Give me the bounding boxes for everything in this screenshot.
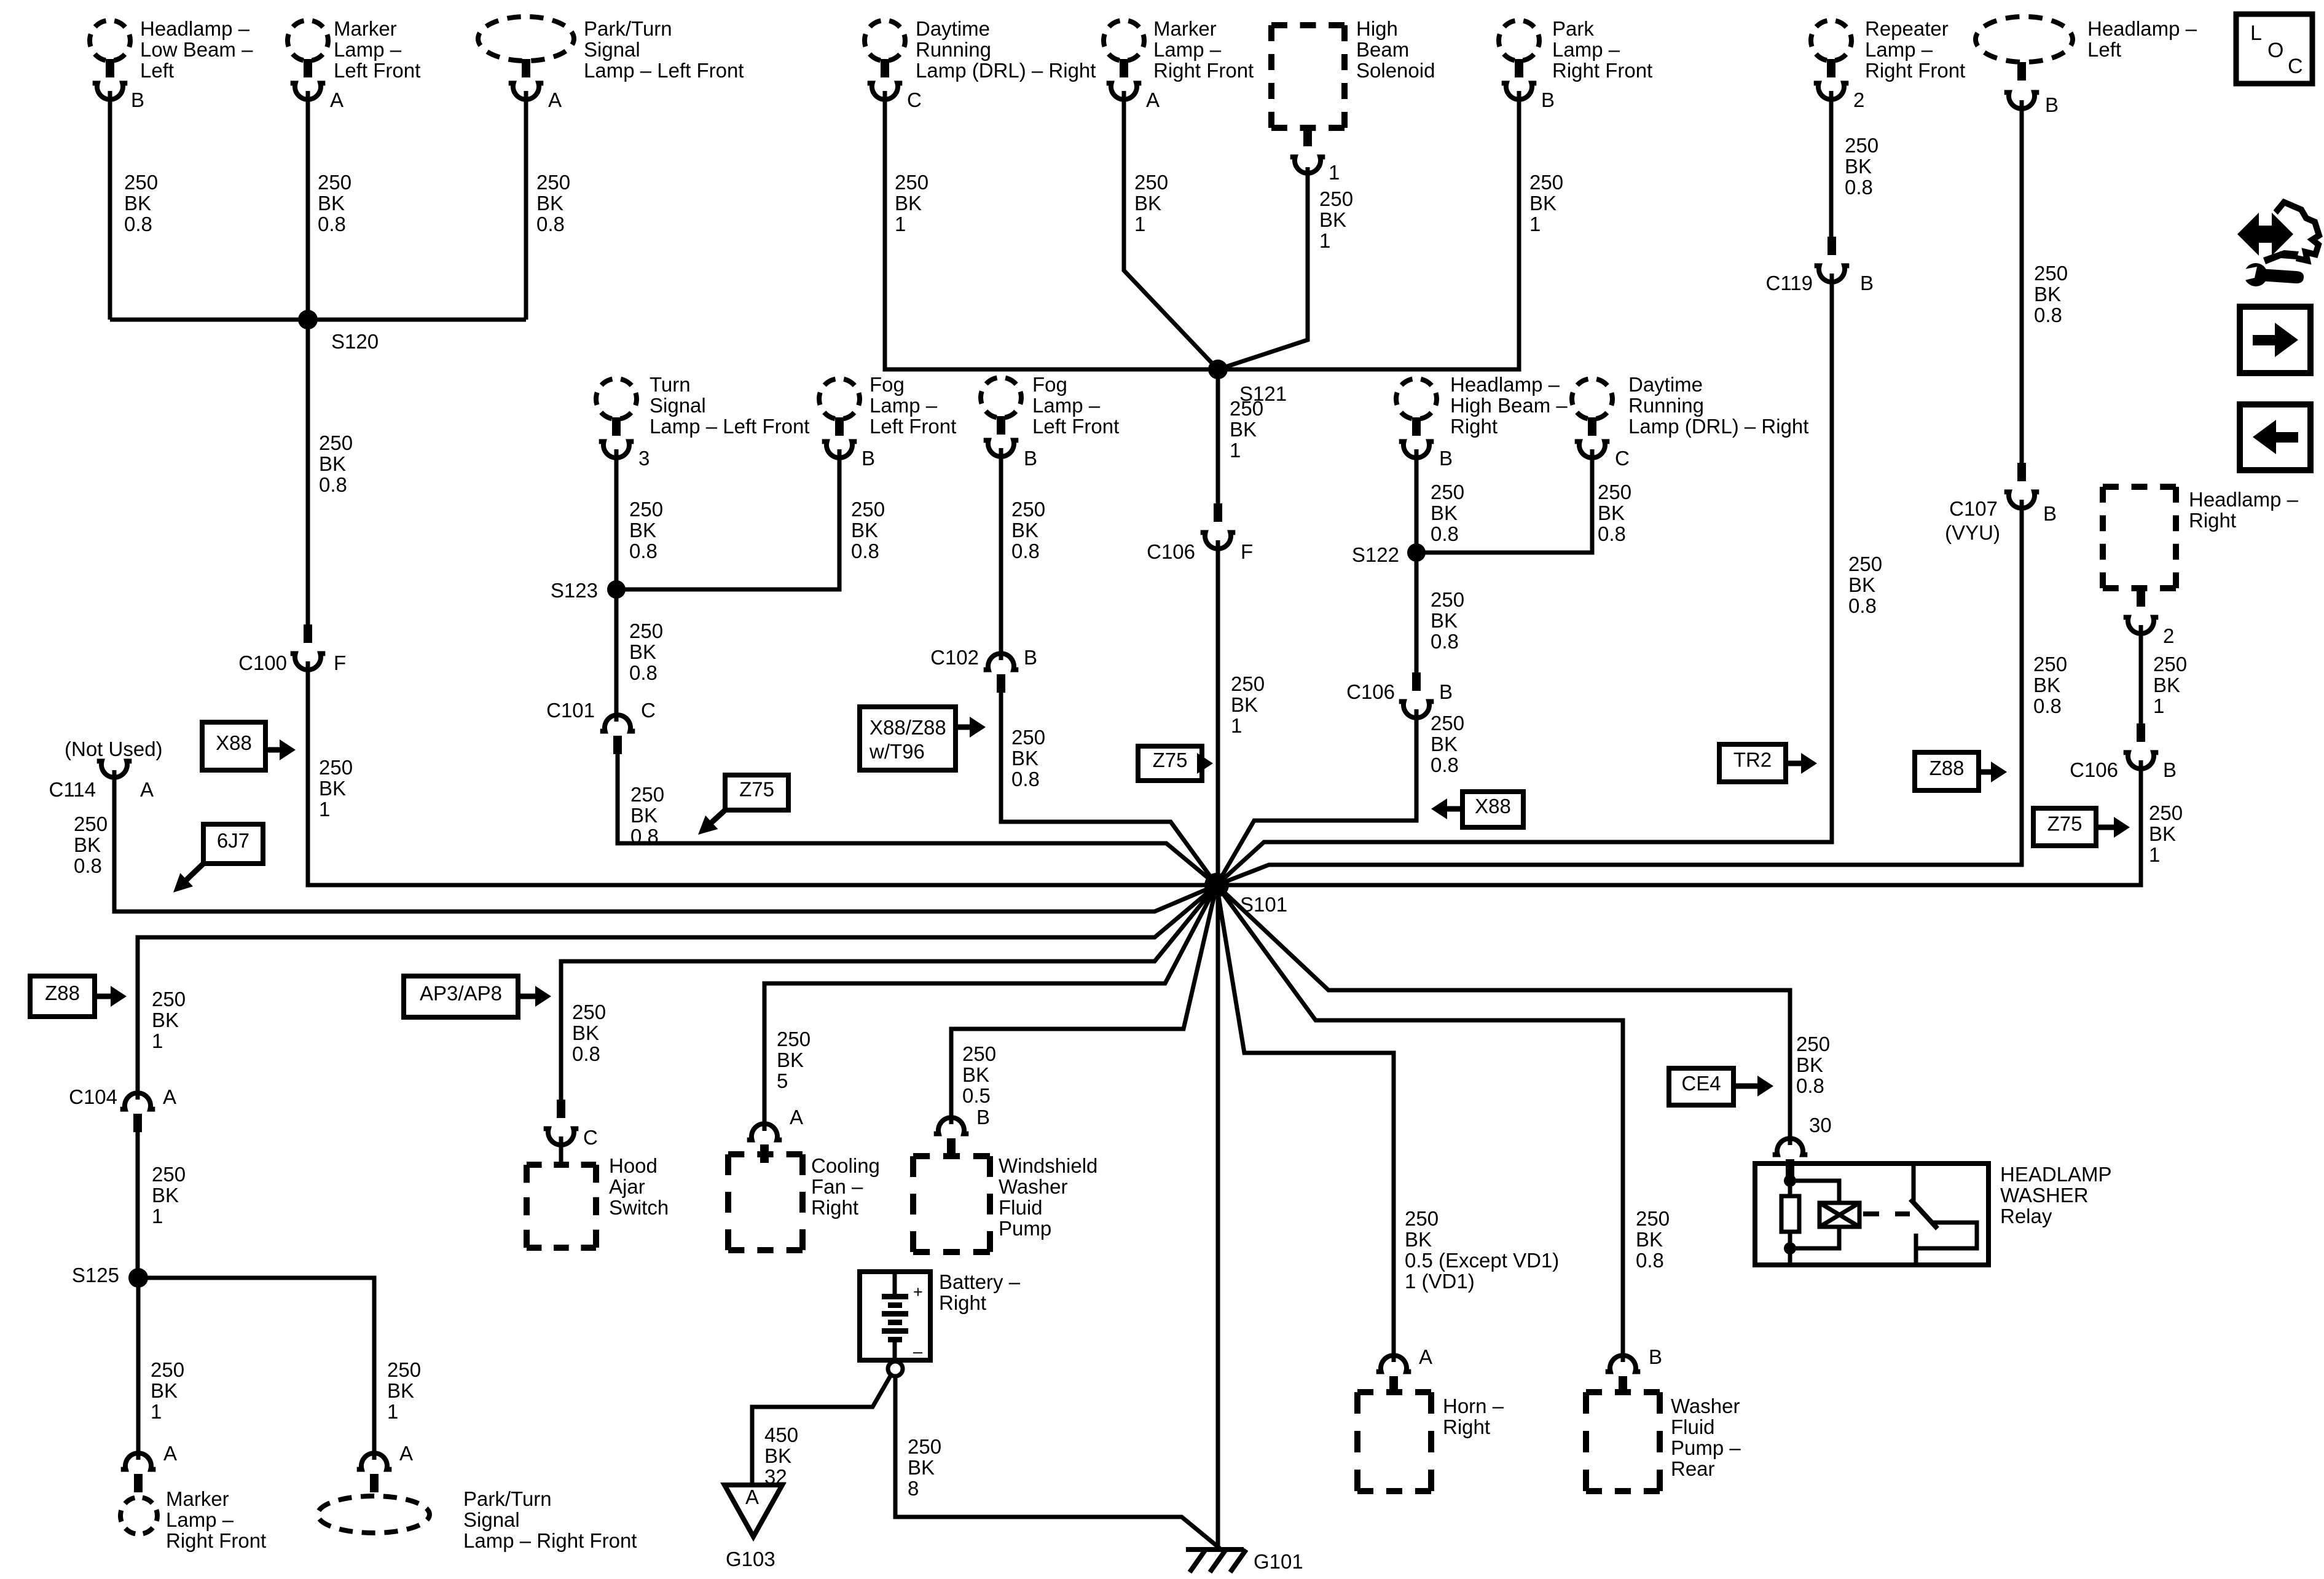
label: Daytime Running Lamp (DRL) - Right (2) — [1628, 373, 1808, 438]
svg-text:C107: C107 — [1949, 497, 1998, 520]
svg-text:A: A — [745, 1486, 759, 1508]
svg-text:250: 250 — [851, 498, 885, 521]
lamp: Turn Signal Lamp - Left Front (connector) — [596, 379, 637, 458]
wire: C106 B right to S101 (main bus right) — [1217, 760, 2141, 885]
wire: headlamp right to C106 — [2139, 625, 2143, 723]
svg-text:250: 250 — [1848, 553, 1882, 575]
svg-text:G101: G101 — [1254, 1550, 1303, 1573]
svg-text:C: C — [907, 89, 922, 111]
svg-text:B: B — [862, 447, 875, 470]
svg-text:C106: C106 — [1147, 540, 1195, 563]
label: Washer Fluid Pump - Rear — [1671, 1395, 1741, 1480]
svg-text:30: 30 — [1809, 1114, 1832, 1136]
arrow: X88/Z88 box to wire — [956, 717, 986, 738]
pin label A (marker right front top) — [1146, 89, 1160, 111]
svg-text:BK: BK — [1796, 1053, 1823, 1076]
wire label 250 BK 0.8 (C119-S101) — [1848, 553, 1882, 617]
arrow: Z75 right to wire — [2096, 817, 2130, 838]
wire: S120 to C100 — [306, 320, 310, 624]
wire label 450 BK 32 — [764, 1423, 798, 1488]
svg-text:BK: BK — [387, 1379, 414, 1402]
pin label B (windshield washer) — [976, 1106, 990, 1128]
svg-text:250: 250 — [319, 756, 353, 779]
svg-text:(Not Used): (Not Used) — [65, 738, 163, 760]
wire: S101 to hood ajar switch — [561, 885, 1217, 1100]
pin label A (park/turn left front) — [548, 89, 562, 111]
connector: horn pin A — [1376, 1355, 1411, 1395]
svg-text:Pump: Pump — [999, 1217, 1051, 1240]
connector: cooling fan pin A — [747, 1124, 782, 1163]
splice S122 — [1352, 543, 1426, 566]
svg-text:Windshield: Windshield — [999, 1154, 1097, 1177]
arrow: Z88 right to wire — [1979, 762, 2007, 782]
component: HEADLAMP WASHER Relay — [1755, 1164, 1988, 1265]
svg-text:BK: BK — [777, 1049, 804, 1071]
wire: S125 to park/turn right front — [138, 1278, 374, 1460]
wire label 250 BK 5 (cooling fan) — [777, 1028, 811, 1092]
svg-text:Battery –: Battery – — [939, 1270, 1021, 1293]
wire: C107 to S101 — [1217, 500, 2022, 885]
svg-text:F: F — [1241, 540, 1253, 563]
label box Z75 (left) — [725, 775, 788, 810]
component: Washer Fluid Pump - Rear (dashed box) — [1586, 1392, 1660, 1491]
pin label B (headlamp left) — [2045, 93, 2059, 116]
wire label 250 BK 0.8 (S123-C101) — [629, 620, 663, 684]
svg-text:Z75: Z75 — [2047, 813, 2083, 835]
svg-text:C101: C101 — [546, 699, 595, 722]
pin label A (park/turn right front) — [399, 1442, 413, 1465]
connector pin 1 (high beam solenoid) — [1290, 128, 1340, 184]
svg-text:AP3/AP8: AP3/AP8 — [420, 982, 502, 1005]
lamp: Daytime Running Lamp (DRL) - Right (connector) — [865, 20, 905, 100]
svg-text:Lamp –: Lamp – — [1153, 38, 1222, 61]
svg-text:B: B — [1649, 1345, 1662, 1368]
label: HEADLAMP WASHER Relay — [2000, 1163, 2112, 1227]
lamp: Headlamp - Left (oval connector) — [1976, 17, 2073, 109]
svg-text:0.8: 0.8 — [1796, 1074, 1824, 1097]
svg-text:Right Front: Right Front — [1153, 59, 1254, 82]
svg-text:Lamp –: Lamp – — [1032, 394, 1101, 417]
svg-text:HEADLAMP: HEADLAMP — [2000, 1163, 2112, 1186]
pin label A (cooling fan) — [790, 1106, 803, 1128]
svg-text:BK: BK — [908, 1456, 935, 1479]
svg-text:250: 250 — [908, 1435, 941, 1458]
icon: left arrow box — [2240, 404, 2310, 470]
svg-text:Fluid: Fluid — [1671, 1416, 1715, 1438]
label: High Beam Solenoid — [1356, 17, 1435, 82]
svg-text:BK: BK — [572, 1022, 599, 1044]
svg-text:BK: BK — [319, 777, 346, 800]
svg-text:Right: Right — [811, 1196, 858, 1219]
svg-text:0.8: 0.8 — [2033, 695, 2062, 717]
arrow: CE4 to wire — [1733, 1076, 1773, 1097]
svg-text:High: High — [1356, 17, 1398, 40]
lamp: Marker Lamp - Left Front (connector) — [288, 20, 328, 100]
component: Battery - Right — [860, 1272, 930, 1361]
svg-text:BK: BK — [630, 804, 658, 827]
wire label 250 BK 0.5 (horn) — [1405, 1207, 1559, 1293]
wire: turn signal to S123 — [614, 449, 619, 589]
svg-text:450: 450 — [764, 1423, 798, 1446]
svg-text:X88: X88 — [216, 731, 252, 754]
label: Daytime Running Lamp (DRL) - Right — [916, 17, 1096, 82]
svg-text:Relay: Relay — [2000, 1205, 2052, 1227]
label: Hood Ajar Switch — [609, 1154, 669, 1219]
connector pin 2 (headlamp right) — [2124, 588, 2175, 647]
svg-text:250: 250 — [962, 1042, 996, 1065]
svg-text:1: 1 — [1529, 213, 1541, 235]
svg-text:BK: BK — [1231, 693, 1258, 716]
label: Fog Lamp - Left Front (1) — [870, 373, 956, 438]
wire label 250 BK 0.8 (park/turn left front) — [536, 171, 570, 235]
label: Fog Lamp - Left Front (2) — [1032, 373, 1119, 438]
svg-text:Lamp (DRL) – Right: Lamp (DRL) – Right — [1628, 415, 1808, 438]
svg-text:A: A — [330, 89, 343, 111]
svg-text:1: 1 — [1230, 439, 1241, 462]
label: Park/Turn Signal Lamp - Right Front — [463, 1487, 637, 1552]
svg-text:B: B — [1024, 646, 1037, 669]
component: Cooling Fan - Right (dashed box) — [728, 1154, 803, 1250]
arrow: Z75 middle to wire — [1197, 753, 1213, 774]
svg-text:0.8: 0.8 — [1431, 754, 1459, 776]
svg-text:Z75: Z75 — [1153, 749, 1188, 771]
svg-text:Z75: Z75 — [739, 778, 774, 801]
component: Headlamp - Right (dashed box) — [2103, 487, 2176, 588]
svg-text:0.8: 0.8 — [1011, 540, 1040, 562]
svg-text:Signal: Signal — [463, 1508, 520, 1531]
label box Z75 (right) — [2033, 808, 2096, 846]
icon: right arrow box — [2240, 307, 2310, 373]
connector C106 pin B (S122 leg) — [1346, 672, 1453, 718]
svg-text:A: A — [163, 1442, 177, 1465]
svg-text:BK: BK — [318, 192, 345, 215]
svg-text:Washer: Washer — [1671, 1395, 1740, 1417]
splice S120 — [298, 310, 379, 353]
wire label 250 BK 0.8 (fog lamp 2) — [1011, 498, 1045, 562]
svg-text:0.8: 0.8 — [1598, 522, 1626, 545]
svg-text:CE4: CE4 — [1681, 1072, 1721, 1095]
svg-text:Fog: Fog — [870, 373, 905, 396]
svg-text:Marker: Marker — [166, 1487, 229, 1510]
svg-text:250: 250 — [318, 171, 351, 194]
wire label 250 BK 0.8 (C102-S101) — [1011, 726, 1045, 790]
icon: service wrench with arrows — [2237, 202, 2319, 286]
connector C104 pin A — [69, 1085, 176, 1132]
wire label 250 BK 1 (S125 left leg) — [151, 1358, 184, 1423]
svg-text:250: 250 — [2033, 653, 2067, 675]
wire label 250 BK 1 (C104-S125) — [152, 1163, 186, 1227]
svg-text:C: C — [641, 699, 656, 722]
pin label A (marker right front) — [163, 1442, 177, 1465]
svg-text:F: F — [334, 652, 346, 674]
label: Park Lamp - Right Front — [1552, 17, 1652, 82]
wire: S101 down to G101 — [1216, 885, 1220, 1549]
svg-text:BK: BK — [2149, 822, 2176, 845]
svg-text:Lamp –: Lamp – — [166, 1508, 234, 1531]
component: High Beam Solenoid (dashed box) — [1271, 25, 1345, 128]
svg-text:BK: BK — [2153, 674, 2180, 696]
svg-text:Lamp – Right Front: Lamp – Right Front — [463, 1529, 637, 1552]
label: Cooling Fan - Right — [811, 1154, 880, 1219]
svg-text:250: 250 — [2153, 653, 2187, 675]
wire: S125 to marker lamp right front — [136, 1278, 141, 1460]
svg-text:Right Front: Right Front — [1552, 59, 1652, 82]
svg-text:0.8: 0.8 — [572, 1042, 600, 1065]
svg-text:B: B — [1439, 680, 1453, 703]
wire: DRL right to S121 — [885, 91, 1218, 369]
wire: park/turn left front to S120 — [524, 91, 528, 320]
pin label A (marker lamp left front) — [330, 89, 343, 111]
svg-text:250: 250 — [1230, 397, 1263, 420]
svg-text:250: 250 — [151, 1358, 184, 1381]
svg-text:BK: BK — [629, 640, 656, 663]
wire label 250 BK 0.8 (low beam left) — [124, 171, 158, 235]
svg-text:1: 1 — [1231, 714, 1242, 737]
svg-text:Lamp –: Lamp – — [1552, 38, 1620, 61]
svg-text:B: B — [976, 1106, 990, 1128]
svg-text:BK: BK — [1431, 502, 1458, 524]
wire label 250 BK 0.5 (windshield washer) — [962, 1042, 996, 1107]
svg-text:BK: BK — [1431, 609, 1458, 632]
svg-text:5: 5 — [777, 1069, 788, 1092]
svg-text:BK: BK — [1636, 1228, 1663, 1251]
wire label 250 BK 1 (Z88-C104) — [152, 988, 186, 1052]
connector + lamp: Park/Turn Signal Lamp - Right Front — [318, 1453, 430, 1533]
svg-text:0.8: 0.8 — [319, 473, 347, 496]
svg-text:0.8: 0.8 — [74, 854, 102, 877]
svg-text:BK: BK — [1598, 502, 1625, 524]
label: Marker Lamp - Left Front — [334, 17, 420, 82]
svg-text:Z88: Z88 — [45, 982, 80, 1004]
connector pin C (hood ajar switch) — [544, 1100, 598, 1165]
wire: DRL right 2 to S122 — [1416, 449, 1592, 553]
svg-text:Right: Right — [1443, 1416, 1490, 1438]
svg-text:Repeater: Repeater — [1865, 17, 1949, 40]
svg-text:BK: BK — [629, 519, 656, 541]
svg-text:Switch: Switch — [609, 1196, 669, 1219]
svg-text:Lamp (DRL) – Right: Lamp (DRL) – Right — [916, 59, 1096, 82]
label box Z75 (middle) — [1138, 746, 1202, 781]
wire label 250 BK 1 (park lamp right front) — [1529, 171, 1563, 235]
wire: C106 B to S101 — [1217, 709, 1416, 885]
svg-text:2: 2 — [2163, 624, 2174, 647]
svg-text:Right: Right — [939, 1291, 986, 1314]
svg-text:250: 250 — [319, 431, 353, 454]
connector C106 pin B (right) — [2070, 723, 2177, 781]
label box 6J7 — [203, 824, 263, 864]
component: Windshield Washer Fluid Pump (dashed box) — [913, 1156, 990, 1252]
wire: repeater lamp to C119 — [1829, 91, 1834, 237]
label box TR2 — [1719, 744, 1786, 782]
wire label 250 BK 0.8 (marker left front) — [318, 171, 351, 235]
wire label 250 BK 0.8 (turn signal) — [629, 498, 663, 562]
ground G103 (triangle A) — [724, 1485, 782, 1570]
svg-text:C106: C106 — [2070, 758, 2118, 781]
lamp: Fog Lamp - Left Front 2 (connector) — [981, 377, 1021, 457]
svg-text:1: 1 — [151, 1400, 162, 1423]
lamp: Park/Turn Signal Lamp - Left Front (oval connector) — [478, 17, 574, 100]
svg-text:Left Front: Left Front — [870, 415, 956, 438]
wire label 250 BK 1 (C106-S101) — [1231, 672, 1265, 737]
arrow: X88 left box to wire — [265, 739, 296, 760]
svg-text:C106: C106 — [1346, 680, 1395, 703]
svg-text:BK: BK — [536, 192, 563, 215]
svg-text:1: 1 — [1134, 213, 1145, 235]
svg-text:0.8: 0.8 — [629, 540, 658, 562]
svg-text:S122: S122 — [1352, 543, 1399, 566]
svg-text:A: A — [163, 1085, 176, 1108]
label: Marker Lamp - Right Front — [166, 1487, 266, 1552]
svg-text:BK: BK — [851, 519, 878, 541]
wire: S122 to C106 B — [1415, 553, 1419, 672]
svg-text:BK: BK — [1319, 208, 1346, 231]
wire: headlamp left to C107 — [2020, 100, 2024, 463]
label box X88 (left) — [202, 722, 265, 770]
wire: C102 to S101 — [1001, 691, 1217, 885]
svg-text:S125: S125 — [72, 1264, 119, 1286]
svg-text:BK: BK — [1431, 733, 1458, 755]
arrow: TR2 to wire — [1786, 753, 1817, 774]
label box CE4 — [1669, 1068, 1733, 1105]
arrow: X88 right to wire (left-pointing) — [1431, 798, 1462, 819]
splice S123 — [551, 579, 626, 602]
svg-text:BK: BK — [1529, 192, 1557, 215]
svg-text:0.8: 0.8 — [851, 540, 879, 562]
svg-text:250: 250 — [895, 171, 928, 194]
svg-text:0.8: 0.8 — [1431, 630, 1459, 653]
svg-text:250: 250 — [1636, 1207, 1670, 1230]
svg-text:0.5: 0.5 — [962, 1084, 991, 1107]
svg-text:Ajar: Ajar — [609, 1175, 645, 1198]
svg-text:A: A — [548, 89, 562, 111]
svg-text:Horn –: Horn – — [1443, 1395, 1504, 1417]
svg-text:Park: Park — [1552, 17, 1594, 40]
wire label 250 BK 1 (DRL right) — [895, 171, 928, 235]
svg-text:WASHER: WASHER — [2000, 1184, 2089, 1207]
svg-text:BK: BK — [1134, 192, 1161, 215]
svg-text:0.8: 0.8 — [1011, 768, 1040, 790]
pin label 3 (turn signal) — [638, 447, 650, 470]
wire: S101 to headlamp washer relay — [1217, 885, 1790, 1145]
arrow: AP3/AP8 to wire — [518, 986, 551, 1007]
wire label 250 BK 0.8 (S120-C100) — [319, 431, 353, 496]
wire label 250 BK 0.8 (high beam right) — [1431, 481, 1464, 545]
svg-text:Marker: Marker — [1153, 17, 1217, 40]
svg-text:250: 250 — [1796, 1033, 1830, 1055]
svg-text:1: 1 — [387, 1400, 398, 1423]
wire: high beam right to S122 — [1415, 449, 1419, 553]
svg-text:BK: BK — [2033, 674, 2060, 696]
wire: high beam solenoid to S121 — [1218, 167, 1308, 369]
svg-text:1: 1 — [152, 1205, 163, 1227]
svg-text:Signal: Signal — [584, 38, 640, 61]
svg-text:BK: BK — [2034, 283, 2061, 305]
pin label C (DRL right 2) — [1615, 447, 1630, 470]
lamp: Headlamp - High Beam - Right (connector) — [1396, 379, 1437, 458]
svg-text:BK: BK — [151, 1379, 178, 1402]
pin label C (DRL right) — [907, 89, 922, 111]
wire: S123 to C101 — [614, 589, 619, 722]
label: Horn - Right — [1443, 1395, 1504, 1438]
wire label 250 BK 1 (marker right front top) — [1134, 171, 1168, 235]
svg-text:Pump –: Pump – — [1671, 1436, 1741, 1459]
wire label 250 BK 0.8 (C101-S101) — [630, 783, 664, 848]
svg-text:Lamp –: Lamp – — [334, 38, 402, 61]
svg-text:Park/Turn: Park/Turn — [584, 17, 672, 40]
svg-text:Park/Turn: Park/Turn — [463, 1487, 552, 1510]
svg-text:Left: Left — [2087, 38, 2121, 61]
wire: marker lamp left front to S120 — [306, 91, 310, 320]
svg-text:250: 250 — [1431, 481, 1464, 503]
svg-text:0.5 (Except VD1): 0.5 (Except VD1) — [1405, 1249, 1559, 1272]
wire label 250 BK 0.8 (repeater) — [1845, 134, 1878, 199]
svg-text:C104: C104 — [69, 1085, 117, 1108]
svg-text:A: A — [140, 778, 154, 801]
label: Park/Turn Signal Lamp - Left Front — [584, 17, 744, 82]
svg-text:Rear: Rear — [1671, 1457, 1715, 1480]
wire: S120 bus — [110, 318, 526, 322]
svg-text:Fluid: Fluid — [999, 1196, 1043, 1219]
svg-text:B: B — [1860, 272, 1874, 294]
svg-text:BK: BK — [152, 1009, 179, 1031]
svg-text:Low Beam –: Low Beam – — [140, 38, 253, 61]
wire: S101 to horn — [1217, 885, 1394, 1362]
svg-text:250: 250 — [1529, 171, 1563, 194]
svg-text:BK: BK — [152, 1184, 179, 1207]
wire label 250 BK 1 (below C100) — [319, 756, 353, 821]
svg-text:250: 250 — [387, 1358, 421, 1381]
svg-text:250: 250 — [152, 1163, 186, 1186]
icon: LOC box — [2236, 14, 2312, 84]
svg-text:250: 250 — [2034, 262, 2068, 285]
svg-text:0.8: 0.8 — [536, 213, 565, 235]
svg-text:Beam: Beam — [1356, 38, 1409, 61]
svg-text:B: B — [1541, 89, 1555, 111]
connector C100 pin F — [238, 624, 346, 674]
svg-text:Lamp – Left Front: Lamp – Left Front — [650, 415, 809, 438]
svg-text:0.8: 0.8 — [1636, 1249, 1664, 1272]
pin label B (fog lamp 1) — [862, 447, 875, 470]
wire label 250 BK 0.8 (S122-C106) — [1431, 588, 1464, 653]
svg-text:250: 250 — [572, 1001, 606, 1023]
svg-text:0.8: 0.8 — [1431, 522, 1459, 545]
arrow: Z88 left box to wire — [95, 986, 127, 1007]
svg-text:250: 250 — [1405, 1207, 1439, 1230]
wire: Z88/C104 branch to S101 — [138, 885, 1217, 1100]
svg-text:Fog: Fog — [1032, 373, 1067, 396]
arrow: Z75 left to wire — [698, 810, 725, 835]
svg-text:6J7: 6J7 — [217, 829, 249, 852]
svg-text:2: 2 — [1853, 89, 1864, 111]
svg-text:Daytime: Daytime — [1628, 373, 1703, 396]
wire label 250 BK 0.8 (DRL right 2) — [1598, 481, 1631, 545]
svg-text:8: 8 — [908, 1477, 919, 1500]
svg-text:Z88: Z88 — [1929, 757, 1965, 779]
wire label 250 BK 1 (headlamp right) — [2153, 653, 2187, 717]
wire: C100 to S101 (main bus left) — [308, 661, 1217, 885]
svg-text:A: A — [399, 1442, 413, 1465]
svg-text:BK: BK — [1230, 418, 1257, 441]
svg-text:0.8: 0.8 — [629, 661, 658, 684]
svg-text:G103: G103 — [726, 1548, 775, 1570]
connector: washer rear pin B — [1606, 1355, 1641, 1395]
svg-text:1: 1 — [2149, 843, 2160, 866]
wire: headlamp low beam left to S120 — [108, 91, 112, 320]
lamp: Park Lamp - Right Front (connector) — [1499, 20, 1539, 100]
svg-text:Headlamp –: Headlamp – — [1450, 373, 1560, 396]
label box X88/Z88 w/T96 — [860, 707, 956, 770]
svg-text:B: B — [2163, 758, 2177, 781]
